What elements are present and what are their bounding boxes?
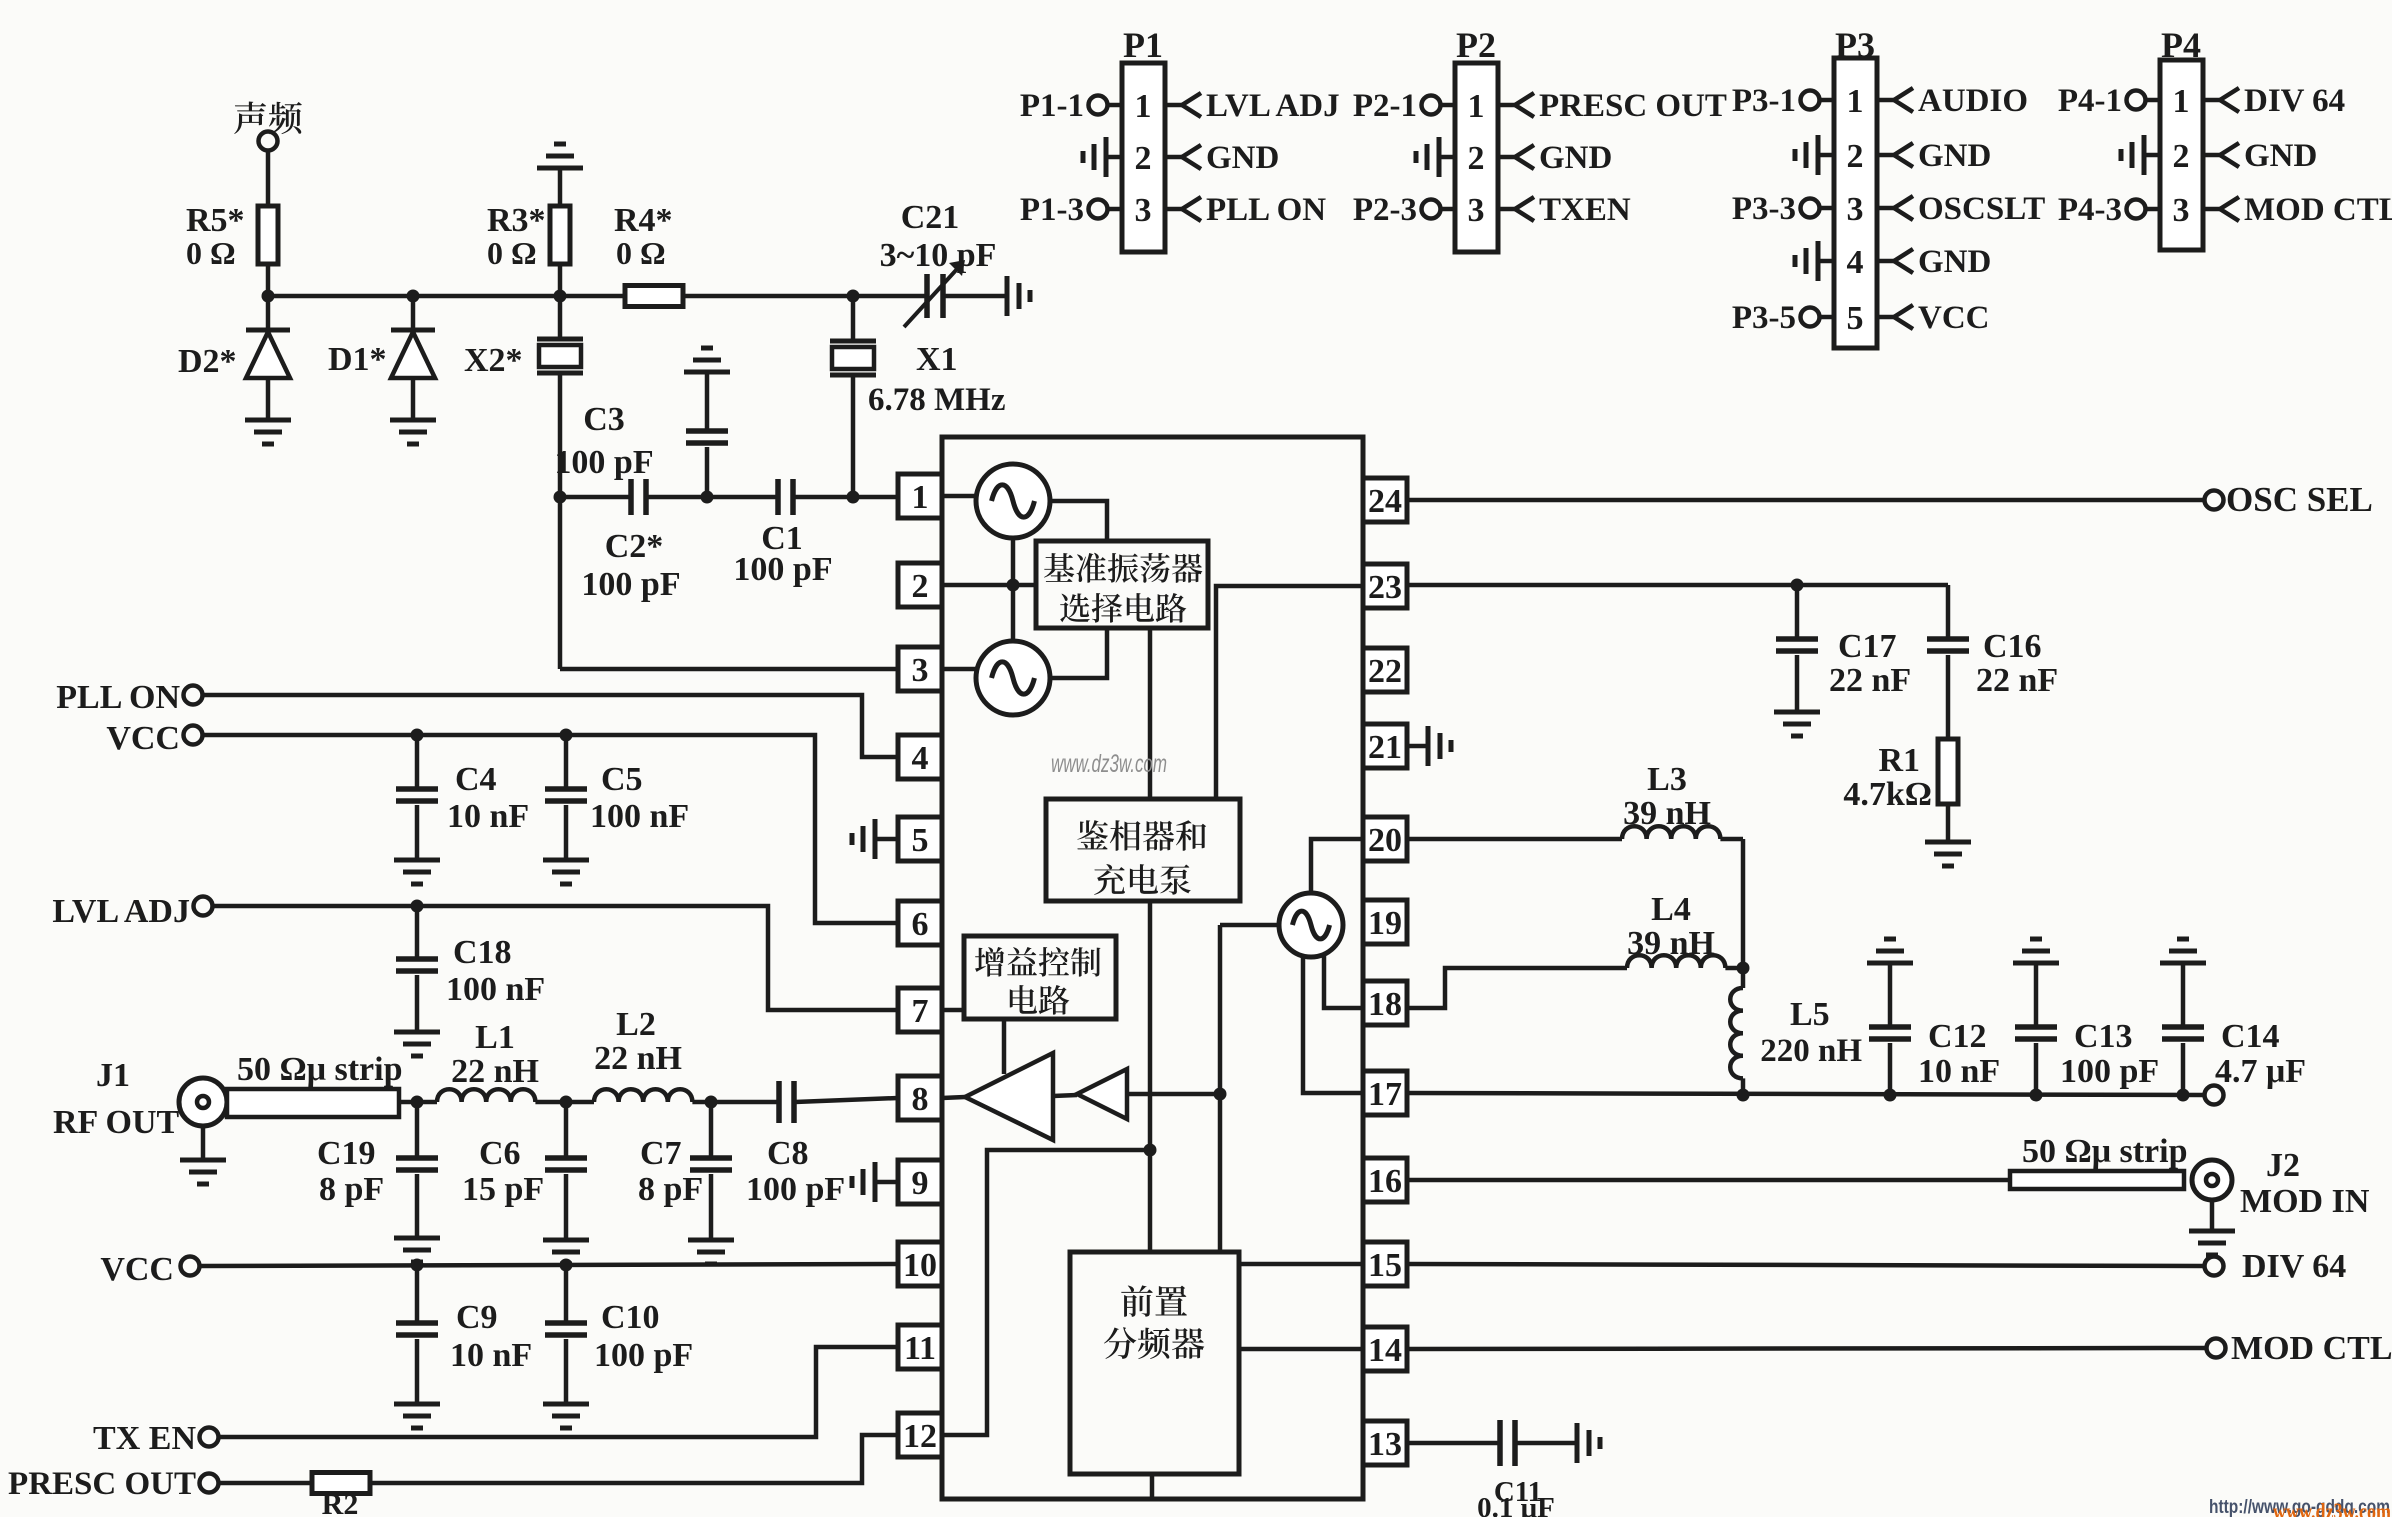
- node junction: [407, 290, 420, 303]
- svg-text:C18: C18: [453, 934, 512, 971]
- wire prescaler to pin 15: [1239, 1262, 1363, 1267]
- capacitor C5 100 nF: [564, 735, 569, 789]
- terminal DIV 64: [2205, 1257, 2224, 1276]
- svg-text:7: 7: [912, 993, 929, 1030]
- oscillator symbol VCO: [1279, 893, 1343, 957]
- inductor L5 220 nH: [1741, 968, 1746, 988]
- svg-text:C13: C13: [2074, 1018, 2133, 1055]
- ground above R3: [554, 142, 566, 147]
- svg-text:C19: C19: [317, 1135, 376, 1172]
- svg-text:9: 9: [912, 1165, 929, 1202]
- trimmer capacitor C21 3~10 pF: [924, 274, 930, 318]
- svg-text:VCC: VCC: [106, 720, 180, 757]
- svg-text:3: 3: [2173, 192, 2190, 229]
- zener diode D2*: [266, 296, 271, 330]
- pin 11: [898, 1325, 942, 1369]
- svg-text:C4: C4: [455, 761, 497, 798]
- svg-text:1: 1: [1847, 83, 1864, 120]
- resistor R5* 0Ω: [258, 206, 278, 264]
- node junction: [554, 290, 567, 303]
- pin 9: [898, 1160, 942, 1204]
- node junction: [411, 729, 424, 742]
- svg-text:15: 15: [1368, 1247, 1402, 1284]
- svg-text:3: 3: [1847, 191, 1864, 228]
- svg-text:12: 12: [903, 1418, 937, 1455]
- svg-text:P4-3: P4-3: [2058, 192, 2122, 228]
- svg-text:0 Ω: 0 Ω: [487, 235, 537, 271]
- svg-text:14: 14: [1368, 1332, 1402, 1369]
- pin 17: [1363, 1071, 1407, 1115]
- svg-text:C10: C10: [601, 1299, 660, 1336]
- wire pin 18 to L4: [1407, 968, 1627, 1008]
- wire pin 13 to C11: [1407, 1441, 1500, 1446]
- svg-text:2: 2: [912, 568, 929, 605]
- pin 1: [898, 474, 942, 518]
- wire PRESC OUT to R2: [219, 1481, 312, 1486]
- svg-text:L2: L2: [616, 1006, 656, 1043]
- amplifier A2: [1077, 1069, 1127, 1119]
- svg-text:1: 1: [1468, 88, 1485, 125]
- capacitor C14 4.7 μF: [2181, 963, 2186, 1027]
- wire: [683, 294, 927, 299]
- svg-text:C8: C8: [767, 1135, 809, 1172]
- pin 3: [898, 647, 942, 691]
- node junction: [1007, 579, 1020, 592]
- svg-text:R1: R1: [1878, 742, 1920, 779]
- svg-text:0 Ω: 0 Ω: [186, 235, 236, 271]
- pin 2: [898, 563, 942, 607]
- svg-text:GND: GND: [1918, 244, 1991, 280]
- terminal P3-5: [1820, 315, 1834, 320]
- svg-text:D1*: D1*: [328, 341, 387, 378]
- svg-text:R4*: R4*: [614, 202, 673, 239]
- wire pin 16 to microstrip: [1407, 1178, 2010, 1183]
- svg-text:P3-1: P3-1: [1732, 83, 1796, 119]
- capacitor C2* 100 pF: [628, 479, 634, 515]
- crystal X2*: [558, 296, 563, 339]
- svg-text:22: 22: [1368, 653, 1402, 690]
- pin 14: [1363, 1327, 1407, 1371]
- sideways ground at pin 21: [1407, 744, 1428, 749]
- svg-text:D2*: D2*: [178, 343, 237, 380]
- svg-text:C9: C9: [456, 1299, 498, 1336]
- node junction: [560, 1096, 573, 1109]
- svg-text:13: 13: [1368, 1426, 1402, 1463]
- svg-text:P1: P1: [1123, 25, 1163, 65]
- ground at P2 pin 2: [1439, 155, 1455, 160]
- svg-text:C3: C3: [583, 401, 625, 438]
- capacitor C13 100 pF: [2034, 963, 2039, 1027]
- pin 5 signal VCC: [1877, 315, 1894, 320]
- block phase detector and charge pump 鉴相器和充电泵: [1046, 799, 1240, 901]
- wire phase detector to prescaler: [1148, 901, 1153, 1252]
- svg-text:P2-1: P2-1: [1353, 88, 1417, 124]
- wire: [266, 264, 271, 296]
- pin 23: [1363, 564, 1407, 608]
- svg-text:1: 1: [1135, 88, 1152, 125]
- svg-text:3: 3: [912, 652, 929, 689]
- svg-text:C14: C14: [2221, 1018, 2280, 1055]
- pin 15: [1363, 1242, 1407, 1286]
- svg-text:P2: P2: [1456, 25, 1496, 65]
- svg-text:18: 18: [1368, 986, 1402, 1023]
- wire pin12 internal: [942, 1150, 1150, 1435]
- svg-text:16: 16: [1368, 1163, 1402, 1200]
- svg-text:2: 2: [1135, 140, 1152, 177]
- pin 2 signal GND: [1165, 155, 1182, 160]
- wire: [399, 1100, 437, 1105]
- svg-text:TXEN: TXEN: [1539, 192, 1631, 228]
- ground at P3 pin 2: [1818, 153, 1834, 158]
- capacitor C7 8 pF: [709, 1102, 714, 1158]
- svg-text:20: 20: [1368, 822, 1402, 859]
- wire pin8 to amplifier: [942, 1097, 965, 1098]
- IC U1 body: [942, 437, 1363, 1499]
- svg-text:11: 11: [904, 1330, 936, 1367]
- node junction: [262, 290, 275, 303]
- svg-text:19: 19: [1368, 905, 1402, 942]
- svg-text:PLL ON: PLL ON: [1206, 192, 1326, 228]
- svg-text:5: 5: [912, 822, 929, 859]
- sideways ground after C11: [1575, 1423, 1580, 1463]
- terminal P2-3: [1441, 207, 1455, 212]
- wire: [646, 495, 778, 500]
- svg-text:23: 23: [1368, 569, 1402, 606]
- terminal MOD CTL: [2207, 1339, 2226, 1358]
- pin 7: [898, 988, 942, 1032]
- svg-text:OSC SEL: OSC SEL: [2226, 480, 2373, 519]
- connector J2 MOD IN: [2192, 1160, 2232, 1200]
- wire PLL ON to pin 4: [203, 695, 898, 757]
- block reference oscillator select 基准振荡器选择电路: [1036, 541, 1208, 628]
- node junction: [1737, 962, 1750, 975]
- resistor R1 4.7kΩ: [1938, 739, 1958, 804]
- wire LVL ADJ to pin 7: [213, 906, 898, 1010]
- svg-text:100 pF: 100 pF: [2060, 1053, 2159, 1090]
- capacitor C8 100 pF: [776, 1081, 782, 1123]
- svg-text:GND: GND: [2244, 138, 2317, 174]
- svg-text:100 pF: 100 pF: [581, 566, 680, 603]
- svg-text:C12: C12: [1928, 1018, 1987, 1055]
- svg-text:MOD CTL: MOD CTL: [2231, 1330, 2392, 1367]
- resistor R4* 0Ω: [625, 286, 683, 307]
- svg-text:C2*: C2*: [605, 528, 664, 565]
- svg-text:24: 24: [1368, 483, 1402, 520]
- terminal P4-1: [2146, 98, 2160, 103]
- svg-text:2: 2: [2173, 138, 2190, 175]
- svg-text:PRESC OUT: PRESC OUT: [1539, 88, 1727, 124]
- svg-text:R3*: R3*: [487, 202, 546, 239]
- wire amplifier to VCO node: [1127, 1092, 1220, 1097]
- wire prescaler to pin 14: [1239, 1347, 1363, 1352]
- pin 4: [898, 735, 942, 779]
- svg-text:1: 1: [2173, 83, 2190, 120]
- wire pin 14 to MOD CTL: [1407, 1348, 2206, 1349]
- svg-text:VCC: VCC: [1918, 300, 1990, 336]
- terminal P2-1: [1441, 103, 1455, 108]
- pin 16: [1363, 1158, 1407, 1202]
- svg-text:P3-5: P3-5: [1732, 300, 1796, 336]
- wire R2 to pin 12: [370, 1435, 898, 1483]
- zener diode D1*: [411, 296, 416, 330]
- node junction: [560, 1259, 573, 1272]
- wire pin2 to block: [942, 583, 1036, 588]
- svg-text:6.78 MHz: 6.78 MHz: [868, 382, 1005, 418]
- pin 1 signal AUDIO: [1877, 98, 1894, 103]
- oscillator symbol lower: [976, 641, 1050, 715]
- svg-text:22 nF: 22 nF: [1976, 662, 2058, 699]
- svg-text:LVL ADJ: LVL ADJ: [1206, 88, 1340, 124]
- wire: [943, 294, 1007, 299]
- pin 3 signal OSCSLT: [1877, 206, 1894, 211]
- svg-text:1: 1: [912, 479, 929, 516]
- capacitor C10 100 pF: [564, 1265, 569, 1323]
- svg-text:100 pF: 100 pF: [554, 444, 653, 481]
- block gain control 增益控制电路: [964, 936, 1116, 1019]
- wire VCO to pin 18: [1324, 955, 1363, 1008]
- wire X2 to pin1/pin3 rail: [558, 373, 563, 669]
- ground above C14: [2177, 937, 2189, 942]
- svg-text:DIV 64: DIV 64: [2244, 83, 2345, 119]
- wire to pin 1: [793, 495, 898, 500]
- svg-text:TX EN: TX EN: [93, 1420, 196, 1457]
- svg-text:22 nH: 22 nH: [451, 1053, 539, 1090]
- svg-text:2: 2: [1468, 140, 1485, 177]
- svg-text:3~10 pF: 3~10 pF: [880, 237, 997, 274]
- capacitor C19 8 pF: [415, 1102, 420, 1158]
- pin 1 signal LVL ADJ: [1165, 103, 1182, 108]
- pin 8: [898, 1076, 942, 1120]
- svg-text:100 pF: 100 pF: [746, 1171, 845, 1208]
- svg-text:MOD CTL: MOD CTL: [2244, 192, 2392, 228]
- ground below R1: [1925, 840, 1971, 845]
- svg-text:PRESC OUT: PRESC OUT: [8, 1466, 196, 1502]
- node junction: [1737, 1089, 1750, 1102]
- ground below J2: [2210, 1200, 2215, 1231]
- svg-text:DIV 64: DIV 64: [2242, 1248, 2346, 1285]
- capacitor C18 100 nF: [415, 906, 420, 959]
- svg-text:8 pF: 8 pF: [319, 1171, 384, 1208]
- svg-text:100 pF: 100 pF: [733, 551, 832, 588]
- pin 10: [898, 1242, 942, 1286]
- wire VCC to pin 6: [203, 735, 898, 923]
- resistor R3* 0Ω: [550, 206, 570, 264]
- wire TX EN to pin 11: [219, 1347, 898, 1437]
- svg-text:8 pF: 8 pF: [638, 1171, 703, 1208]
- wire to pin 3: [560, 667, 898, 672]
- svg-text:OSCSLT: OSCSLT: [1918, 191, 2045, 227]
- svg-text:GND: GND: [1539, 140, 1612, 176]
- capacitor C11 0.1 μF: [1497, 1420, 1503, 1466]
- svg-text:0.1 μF: 0.1 μF: [1477, 1492, 1555, 1517]
- wire pin1 to oscillator: [942, 494, 977, 499]
- svg-text:22 nH: 22 nH: [594, 1040, 682, 1077]
- ground above C12: [1884, 937, 1896, 942]
- svg-text:P2-3: P2-3: [1353, 192, 1417, 228]
- capacitor C16 22 nF: [1946, 585, 1951, 639]
- pin 3 signal PLL ON: [1165, 207, 1182, 212]
- pin 20: [1363, 817, 1407, 861]
- wire pin 20 to L3: [1407, 837, 1622, 842]
- svg-text:GND: GND: [1206, 140, 1279, 176]
- svg-text:4: 4: [1847, 244, 1864, 281]
- ground above C3: [701, 346, 713, 351]
- svg-text:4.7 μF: 4.7 μF: [2215, 1053, 2306, 1090]
- wire oscillator chain: [1011, 538, 1016, 641]
- svg-text:3: 3: [1468, 192, 1485, 229]
- wire audio bus: [268, 294, 625, 299]
- pin 2 signal GND: [2203, 153, 2220, 158]
- ground at P3 pin 4: [1818, 259, 1834, 264]
- resistor R2: [312, 1473, 370, 1494]
- svg-text:AUDIO: AUDIO: [1918, 83, 2028, 119]
- wire pin 23: [1407, 583, 1948, 588]
- wire pin3 to oscillator: [942, 667, 977, 672]
- node junction X1: [847, 491, 860, 504]
- svg-text:J1: J1: [96, 1057, 130, 1094]
- svg-text:RF OUT: RF OUT: [53, 1104, 180, 1141]
- svg-text:8: 8: [912, 1081, 929, 1118]
- svg-text:VCC: VCC: [100, 1251, 174, 1288]
- svg-text:X2*: X2*: [464, 342, 523, 379]
- svg-text:P3-3: P3-3: [1732, 191, 1796, 227]
- pin 18: [1363, 981, 1407, 1025]
- node junction: [847, 290, 860, 303]
- wire pin7 to gain control: [942, 1008, 964, 1013]
- svg-text:15 pF: 15 pF: [462, 1171, 544, 1208]
- wire to VCO: [1220, 923, 1279, 928]
- svg-text:6: 6: [912, 906, 929, 943]
- svg-text:C7: C7: [640, 1135, 682, 1172]
- wire VCO to pin 20: [1311, 839, 1363, 893]
- wire prescaler to bottom rail: [1150, 1474, 1155, 1499]
- terminal P1-3: [1108, 207, 1122, 212]
- oscillator symbol upper: [976, 464, 1050, 538]
- svg-text:www.dz3w.com: www.dz3w.com: [1051, 750, 1167, 778]
- svg-text:100 pF: 100 pF: [594, 1337, 693, 1374]
- capacitor C12 10 nF: [1888, 963, 1893, 1027]
- svg-text:L5: L5: [1790, 996, 1830, 1033]
- pin 19: [1363, 900, 1407, 944]
- pin 24: [1363, 478, 1407, 522]
- wire: [1053, 1095, 1077, 1096]
- wire VCC to pin 10: [200, 1264, 898, 1266]
- node junction: [554, 491, 567, 504]
- node junction: [1791, 579, 1804, 592]
- svg-text:X1: X1: [916, 341, 958, 378]
- wire osc2 to block: [1050, 628, 1107, 678]
- terminal P3-1: [1820, 98, 1834, 103]
- svg-text:5: 5: [1847, 300, 1864, 337]
- ground above C13: [2030, 937, 2042, 942]
- node junction: [411, 900, 424, 913]
- svg-text:L3: L3: [1647, 761, 1687, 798]
- svg-text:220 nH: 220 nH: [1760, 1033, 1862, 1069]
- pin 3 signal MOD CTL: [2203, 207, 2220, 212]
- ground at P4 pin 2: [2144, 153, 2160, 158]
- node junction: [411, 1096, 424, 1109]
- svg-text:3: 3: [1135, 192, 1152, 229]
- wire pin 24 to OSC SEL: [1407, 498, 2204, 503]
- svg-text:10 nF: 10 nF: [450, 1337, 532, 1374]
- wire: [266, 150, 271, 206]
- svg-text:C5: C5: [601, 761, 643, 798]
- capacitor C17 22 nF: [1795, 585, 1800, 639]
- svg-text:L1: L1: [475, 1019, 515, 1056]
- pin 2 signal GND: [1877, 153, 1894, 158]
- svg-text:0 Ω: 0 Ω: [616, 235, 666, 271]
- wire: [1946, 804, 1951, 842]
- svg-text:10: 10: [903, 1247, 937, 1284]
- pin 12: [898, 1413, 942, 1457]
- wire block to phase detector: [1148, 628, 1153, 799]
- ground below J1: [201, 1126, 206, 1160]
- wire gain control to amplifier: [1002, 1019, 1007, 1074]
- node junction: [705, 1096, 718, 1109]
- svg-text:50 Ωμ strip: 50 Ωμ strip: [2022, 1133, 2188, 1170]
- svg-text:100 nF: 100 nF: [590, 798, 689, 835]
- node junction: [411, 1259, 424, 1272]
- wire pin 15 to DIV 64: [1407, 1264, 2204, 1266]
- pin 13: [1363, 1421, 1407, 1465]
- wire: [558, 168, 563, 206]
- pin 1 signal PRESC OUT: [1498, 103, 1515, 108]
- terminal P3-3: [1820, 206, 1834, 211]
- node junction: [560, 729, 573, 742]
- pin 6: [898, 901, 942, 945]
- node junction C3: [701, 491, 714, 504]
- svg-text:C17: C17: [1838, 628, 1897, 665]
- svg-text:GND: GND: [1918, 138, 1991, 174]
- svg-text:LVL ADJ: LVL ADJ: [52, 893, 190, 930]
- capacitor C1 100 pF: [775, 479, 781, 515]
- node 声频 audio input terminal: [234, 101, 266, 134]
- capacitor C3 100 pF: [705, 372, 710, 431]
- svg-text:MOD IN: MOD IN: [2240, 1183, 2370, 1220]
- svg-text:J2: J2: [2266, 1147, 2300, 1184]
- wire pin1 rail: [560, 495, 631, 500]
- svg-text:10 nF: 10 nF: [447, 798, 529, 835]
- svg-text:2: 2: [1847, 138, 1864, 175]
- wire VCO node: [1218, 925, 1223, 1252]
- terminal P1-1: [1108, 103, 1122, 108]
- svg-text:R2: R2: [322, 1488, 359, 1517]
- svg-text:C6: C6: [479, 1135, 521, 1172]
- ground at P1 pin 2: [1106, 155, 1122, 160]
- svg-text:P1-1: P1-1: [1020, 88, 1084, 124]
- svg-text:P4-1: P4-1: [2058, 83, 2122, 119]
- pin 3 signal TXEN: [1498, 207, 1515, 212]
- capacitor C6 15 pF: [564, 1102, 569, 1158]
- block prescaler 前置分频器: [1070, 1252, 1239, 1474]
- crystal X1 6.78 MHz: [851, 296, 856, 341]
- svg-text:C16: C16: [1983, 628, 2042, 665]
- capacitor C9 10 nF: [415, 1265, 420, 1323]
- svg-text:10 nF: 10 nF: [1918, 1053, 2000, 1090]
- wire pin 17 rail: [1407, 1093, 2204, 1095]
- terminal VCO out: [2205, 1086, 2224, 1105]
- terminal P4-3: [2146, 207, 2160, 212]
- svg-text:L4: L4: [1651, 891, 1691, 928]
- svg-text:C21: C21: [901, 199, 960, 236]
- svg-text:21: 21: [1368, 729, 1402, 766]
- svg-text:4: 4: [912, 740, 929, 777]
- svg-text:50 Ωμ strip: 50 Ωμ strip: [237, 1051, 403, 1088]
- pin 2 signal GND: [1498, 155, 1515, 160]
- pin 22: [1363, 648, 1407, 692]
- svg-text:P1-3: P1-3: [1020, 192, 1084, 228]
- sideways ground after C21: [1005, 276, 1010, 316]
